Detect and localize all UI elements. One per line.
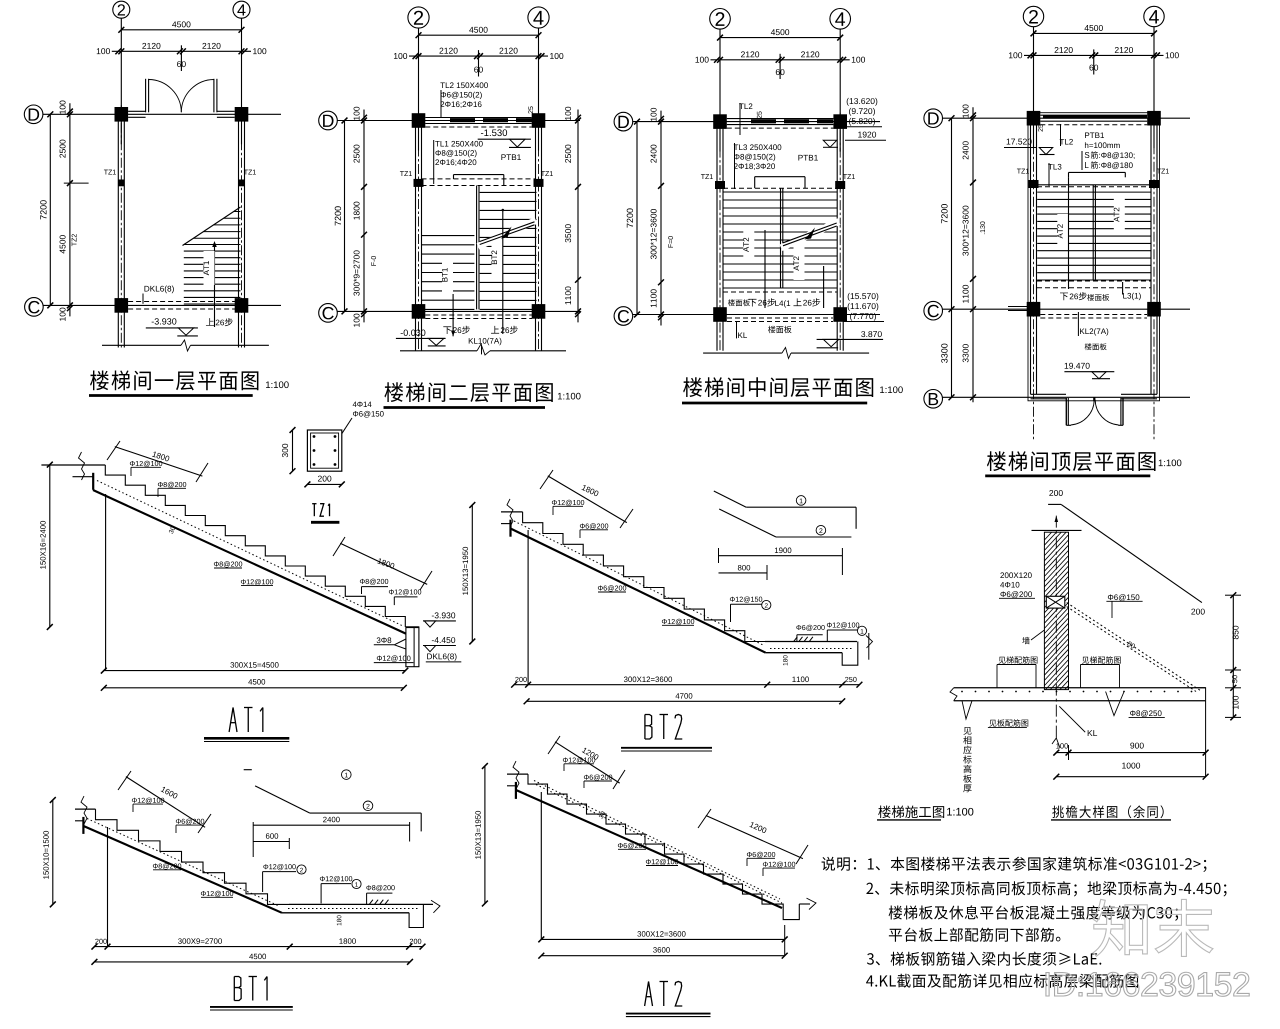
left dims plan4 inner	[972, 107, 974, 402]
BT2 left dim	[471, 505, 473, 642]
svg-text:L: L	[1084, 161, 1089, 170]
label PTB1 plan3	[798, 155, 817, 161]
stair flight hatch AT1	[184, 244, 241, 246]
dim 60 center	[1093, 49, 1095, 74]
outer wall rect plan4	[1028, 113, 1160, 401]
BT1 ref line 1	[244, 769, 252, 771]
grid bubble 2	[113, 1, 130, 18]
eave beam 200X120	[1046, 596, 1065, 608]
grid bubble D	[24, 105, 43, 124]
beam text TL2	[440, 82, 488, 88]
grid line 4	[241, 18, 243, 144]
dim 4500 top	[172, 21, 190, 27]
AT1 rebar dotted	[97, 481, 403, 627]
beam text TL3	[734, 144, 782, 150]
grid bubble C	[25, 298, 44, 317]
AT1 bottom beam	[406, 627, 419, 667]
label up 26 steps	[206, 318, 214, 326]
BT2 bottom dims	[514, 684, 859, 686]
grid line 4	[1153, 27, 1155, 149]
grid centerline	[839, 113, 841, 351]
AT1 label 3phi8	[377, 637, 392, 643]
eave KL label	[1088, 730, 1097, 736]
grid bubble 2	[408, 7, 429, 28]
eave bottom dims	[1056, 752, 1205, 754]
dim 60 center	[779, 54, 781, 79]
label PTB1	[501, 154, 520, 160]
label KL2(7A)	[1080, 328, 1108, 335]
label KL	[738, 332, 747, 338]
grid bubble 4	[830, 8, 851, 29]
AT2 bottom end	[782, 904, 800, 920]
BT1 slab rebar ticks	[369, 900, 373, 905]
beam TL2 at D	[425, 117, 531, 119]
BT1 end block	[409, 904, 423, 927]
stair outline upper	[454, 174, 504, 176]
AT1 labels right	[360, 579, 388, 585]
AT1 left dim 150X16=2400	[49, 465, 51, 627]
grid bubble D plan2	[319, 111, 338, 130]
eave phi6@150	[1108, 594, 1140, 601]
BT1 top landing	[75, 808, 96, 810]
landing lower dashed	[723, 287, 837, 289]
double door	[145, 79, 147, 113]
title stair construction	[878, 806, 944, 818]
AT2 diag dim left	[555, 742, 620, 783]
left dims plan2	[344, 121, 346, 312]
columns plan4	[1027, 111, 1041, 126]
label up 26	[491, 326, 499, 334]
label TL2 TL3	[1060, 139, 1073, 145]
center rail plan3	[780, 188, 782, 288]
beam TL2 at D plan3	[727, 118, 834, 120]
AT2 soffit	[516, 790, 782, 908]
AT1 steps	[105, 465, 405, 627]
ground line plan3	[703, 352, 782, 354]
BT1 ref line 2	[255, 786, 310, 813]
BT2 dim 800	[719, 572, 768, 574]
door opening top wall	[128, 110, 146, 112]
bottom door plan4	[1065, 398, 1067, 425]
eave see slab label	[989, 719, 1028, 726]
dim 60 center	[478, 50, 480, 76]
landing beam dashed plan3	[723, 187, 837, 189]
eave vertical label	[963, 727, 971, 735]
elevation 19.470	[1065, 363, 1090, 369]
grid bubble 2	[1023, 6, 1043, 26]
AT1 label phi12 bottom	[377, 655, 411, 661]
BT2 ref line 1	[714, 491, 746, 507]
elevation -3.930	[152, 318, 177, 324]
grid line 4	[839, 29, 841, 152]
down arrow line	[452, 294, 454, 336]
watermark id	[1046, 972, 1249, 996]
left dims plan3	[636, 122, 638, 315]
eave 200 right label	[1191, 609, 1204, 615]
TZ1 rebar note	[353, 402, 372, 407]
wall on grid	[716, 129, 718, 351]
BT1 steps	[96, 809, 290, 904]
BT2 steps	[523, 512, 765, 642]
BT2 rebar dotted	[514, 521, 763, 645]
beams at C dashed plan4	[1040, 314, 1147, 316]
grid line C	[338, 310, 581, 312]
labels bottom plan3	[728, 299, 750, 306]
eave sloped rebar dotted	[1067, 603, 1202, 692]
mid columns TZ1 plan4	[1029, 180, 1039, 188]
flight BT2 hatch	[480, 191, 537, 193]
eave beam note	[1000, 572, 1031, 578]
grid line C	[43, 304, 281, 306]
grid bubble D plan3	[614, 112, 633, 131]
ground line with break	[102, 344, 181, 346]
C left stub	[1008, 306, 1030, 308]
right dims plan2	[577, 110, 579, 323]
arrow up direction	[214, 243, 216, 327]
BT2 title	[644, 715, 646, 740]
grid bubble 4	[233, 1, 250, 18]
title plan4	[987, 451, 1156, 471]
AT1 bottom dims	[104, 670, 406, 672]
TZ1 column section detail	[307, 430, 341, 471]
eave wall label	[1022, 637, 1029, 644]
AT1 title	[229, 708, 237, 733]
title plan1	[90, 370, 258, 390]
BT1 diag dim	[126, 777, 205, 828]
AT2 title	[645, 982, 653, 1007]
dim 100/2120/2120/100	[112, 50, 251, 52]
PTB1 text block plan4	[1085, 132, 1104, 138]
BT1 title	[233, 977, 235, 1001]
grid centerline	[241, 105, 243, 347]
wall on grid	[117, 121, 119, 347]
BT2 dim 1900	[719, 555, 843, 557]
mid columns TZ1 plan2	[414, 179, 424, 187]
TZ1 label	[312, 503, 316, 505]
label DKL6(8)	[144, 286, 173, 294]
BT2 end block	[842, 642, 858, 666]
grid bubble 2	[710, 8, 731, 29]
columns plan2	[412, 113, 426, 128]
grid centerline	[120, 105, 122, 347]
AT2 rebar dotted	[534, 781, 780, 900]
label down 26	[443, 326, 451, 334]
title eave detail	[1052, 805, 1163, 818]
stair break diagonal plan2	[478, 221, 536, 247]
center rail	[476, 186, 478, 310]
grid lines D C B	[943, 117, 1191, 119]
grid bubble C plan2	[319, 304, 338, 323]
grid bubble B plan4	[924, 390, 943, 409]
AT1 labels top	[130, 461, 162, 467]
BT2 landing slab	[765, 641, 857, 643]
stair break diagonal plan3	[781, 222, 839, 248]
grid line D	[633, 121, 880, 123]
center rail plan4	[1092, 185, 1094, 280]
BT2 slab rebar ticks	[794, 637, 798, 642]
elevation -1.530	[481, 129, 507, 136]
BT2 end break	[866, 636, 873, 649]
beam text TL1	[435, 141, 483, 147]
AT1 label DKL6	[427, 653, 456, 661]
BT1 left dim	[52, 800, 54, 904]
dim 4500 top	[469, 27, 487, 33]
eave top line	[1032, 529, 1082, 531]
labels 1100 row plan4	[1060, 293, 1068, 301]
grid line 2	[120, 18, 122, 144]
upper landing outline plan4	[1069, 171, 1126, 173]
eave see-notes labels	[998, 656, 1037, 663]
AT2 top landing	[507, 773, 528, 775]
AT2 labels	[563, 757, 595, 763]
BT2 ref line 2	[719, 509, 776, 537]
BT1 labels	[132, 798, 164, 804]
wall on grid	[535, 128, 537, 351]
label floor slab	[1085, 343, 1107, 350]
left dim 100/2500/4500/100	[69, 103, 71, 316]
stair outline upper plan3	[755, 176, 805, 178]
grid line C	[633, 314, 880, 316]
AT2 bottom dims	[541, 938, 784, 940]
dim 100/2120/2120/100	[711, 59, 850, 61]
beams at C dashed plan3	[727, 317, 833, 319]
AT1 diag dim top	[115, 447, 203, 477]
grid bubble C plan3	[614, 307, 633, 326]
beams at C dashed	[425, 314, 532, 316]
stair hatch plan4	[1037, 184, 1150, 186]
AT1 top landing	[73, 464, 106, 466]
eave right end block	[1196, 688, 1205, 701]
grid bubble D plan4	[924, 109, 943, 128]
elevation -0.030	[401, 330, 426, 336]
BT1 dim 600	[253, 841, 289, 843]
bottom wall with door gap	[1031, 393, 1067, 395]
up arrow line	[502, 210, 504, 334]
svg-text:S: S	[1084, 151, 1089, 160]
TZ1 dim 300	[292, 430, 294, 471]
beam dashes at C	[128, 301, 235, 303]
ground line plan2	[400, 350, 477, 352]
label KL10(7A)	[469, 338, 502, 345]
title plan2	[384, 382, 552, 402]
grid line D	[338, 120, 581, 122]
grid line D	[43, 113, 281, 115]
AT2 steps	[528, 774, 782, 904]
watermark zhimo	[1093, 899, 1213, 956]
left dim 7200	[49, 114, 51, 305]
stair break diagonal	[183, 207, 241, 246]
columns at D	[115, 107, 129, 122]
AT1 extension lines	[105, 494, 107, 671]
grid bubble 4	[528, 7, 549, 28]
stair hatch full plan3	[723, 191, 837, 193]
BT1 landing slab	[289, 903, 433, 905]
BT2 diag dim	[548, 476, 627, 523]
eave wall hatched	[1044, 532, 1068, 689]
AT2 left dim	[484, 766, 486, 904]
eave centerline	[1055, 516, 1057, 740]
arrow lines plan4	[1068, 177, 1070, 289]
eave phi8@250	[1130, 710, 1162, 717]
beam TL2 at D plan4	[1040, 114, 1147, 116]
elevations right bottom	[848, 293, 879, 301]
columns at C	[115, 298, 129, 313]
eave roof diagonal	[1061, 504, 1202, 602]
BT1 dim 2400	[253, 824, 409, 826]
BT2 left ext line	[527, 530, 529, 685]
grid centerline	[719, 113, 721, 351]
dim 100/2120/2120/100	[409, 55, 548, 57]
eave KL break mark	[1052, 738, 1060, 748]
AT1 soffit	[93, 490, 406, 634]
grid centerline	[418, 112, 420, 351]
eave top dim 200	[1049, 490, 1062, 496]
AT1 elevation -3.930	[432, 612, 455, 618]
grid bubble 4	[1144, 6, 1164, 26]
columns plan3	[713, 114, 727, 129]
AT1 labels mid	[214, 561, 242, 567]
AT1 diag dim right	[340, 543, 427, 584]
mid columns TZ1 plan3	[715, 181, 725, 189]
eave slab	[954, 687, 1206, 689]
AT2 diag dim right	[706, 816, 803, 859]
BT1 bottom dims	[94, 946, 422, 948]
flight BT1 hatch	[422, 235, 475, 237]
grid centerline	[538, 112, 540, 351]
BT1 rebar dotted	[87, 819, 279, 907]
outer walls plan4	[1030, 125, 1032, 394]
AT1 elevation -4.450	[432, 637, 455, 643]
mid columns TZ1	[118, 180, 124, 187]
elevations right top	[847, 98, 878, 106]
elevation 17.520	[1007, 139, 1032, 145]
grid line 4	[538, 28, 540, 150]
arrow lines plan3	[764, 230, 766, 308]
wall on grid	[238, 121, 240, 347]
title plan3	[683, 377, 873, 397]
eave right dims	[1232, 595, 1234, 717]
wall on grid	[836, 129, 838, 351]
grid line 2	[418, 28, 420, 150]
notes text	[822, 857, 1207, 872]
wall on grid	[415, 128, 417, 351]
grid bubble C plan4	[924, 301, 943, 320]
landing dashed plan4	[1037, 186, 1151, 188]
landing beam dashed	[422, 178, 536, 180]
grid line 2	[1033, 27, 1035, 149]
BT2 top landing	[501, 511, 523, 513]
TZ1 dim 200	[307, 483, 341, 485]
dim 60 center	[180, 45, 182, 71]
dim 100/2120/2120/100	[1024, 54, 1164, 56]
dim 4500 top	[771, 29, 789, 35]
left dims plan4 outer	[951, 118, 953, 397]
lower landing dashed plan4	[1037, 280, 1151, 282]
BT2 labels	[552, 500, 584, 506]
dim 4500 top	[1084, 25, 1102, 31]
grid line 2	[719, 29, 721, 152]
